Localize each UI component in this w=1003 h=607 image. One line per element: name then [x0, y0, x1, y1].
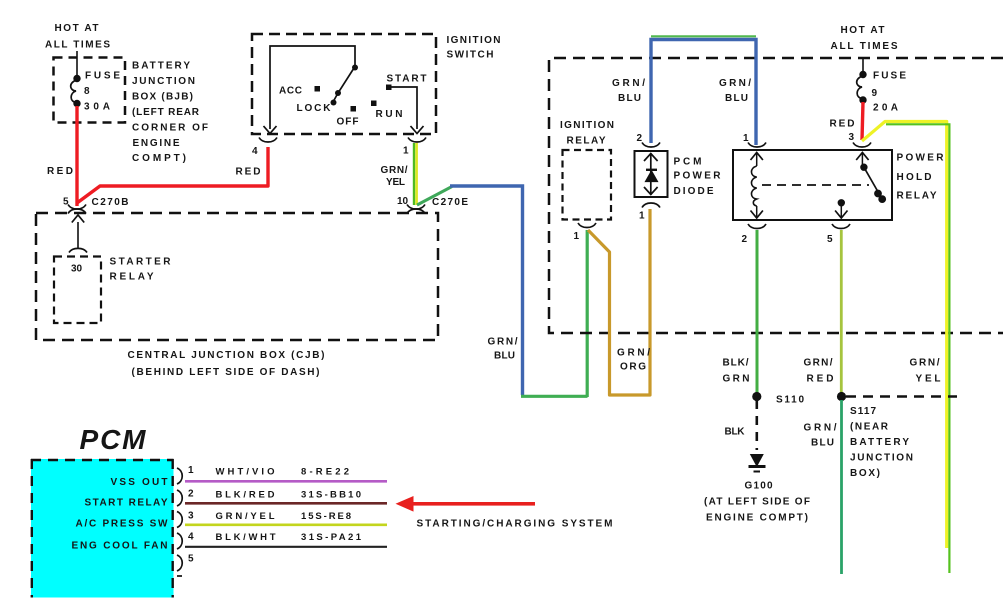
svg-text:DIODE: DIODE [674, 186, 714, 197]
svg-text:VSS OUT: VSS OUT [111, 477, 168, 488]
wire GRN/YEL from relay pin 3 up right and down right edge [862, 122, 947, 549]
label GRN/YEL 15S-RE8 [216, 511, 352, 522]
svg-text:3: 3 [849, 132, 855, 143]
svg-text:HOT AT: HOT AT [841, 25, 885, 36]
connector at ignition relay pin 1 [578, 223, 596, 228]
svg-text:FUSE: FUSE [873, 71, 906, 82]
central junction box (CJB) dashed box [36, 213, 438, 340]
label POWER HOLD RELAY [897, 153, 945, 202]
PCM pin numbers 1-5 [188, 465, 194, 565]
svg-text:BLU: BLU [811, 438, 834, 449]
svg-text:1: 1 [188, 465, 194, 476]
svg-text:STARTING/CHARGING SYSTEM: STARTING/CHARGING SYSTEM [417, 519, 613, 530]
PCM power diode box [635, 151, 668, 197]
svg-text:1: 1 [574, 231, 580, 242]
label FUSE 9 20A [872, 71, 907, 114]
svg-text:ENG COOL FAN: ENG COOL FAN [72, 541, 168, 552]
connector at relay pin 2 [748, 224, 766, 229]
svg-text:RELAY: RELAY [110, 272, 154, 283]
svg-text:ORG: ORG [620, 362, 646, 373]
svg-text:1: 1 [403, 146, 409, 157]
svg-text:CORNER OF: CORNER OF [132, 123, 208, 134]
ignition switch dashed box [252, 34, 436, 134]
label HOT AT ALL TIMES (right) [831, 25, 898, 52]
big dashed box (engine compartment area) [549, 58, 1003, 333]
svg-text:ACC: ACC [279, 86, 302, 97]
dashed link from S117 to GRN/YEL wire [846, 395, 957, 397]
svg-text:OFF: OFF [337, 117, 359, 128]
svg-text:2: 2 [742, 234, 748, 245]
label IGNITION RELAY [560, 120, 614, 147]
svg-text:1: 1 [743, 133, 749, 144]
svg-text:C270B: C270B [92, 197, 129, 208]
label BLK/WHT 31S-PA21 [216, 532, 362, 543]
relay dashed actuation line [762, 184, 869, 186]
svg-text:START RELAY: START RELAY [85, 498, 168, 509]
wire GRN/BLU below S117 [840, 400, 843, 574]
wire RED from C270B to ignition switch pin 4 [77, 147, 268, 203]
wire GRN/YEL from ignition switch pin 1 to C270E [414, 143, 417, 205]
svg-text:8: 8 [84, 86, 90, 97]
svg-text:A/C PRESS SW: A/C PRESS SW [76, 519, 169, 530]
label 10 C270E [397, 196, 468, 208]
svg-text:S110: S110 [776, 395, 804, 406]
svg-text:RELAY: RELAY [567, 136, 606, 147]
red arrow (STARTING/CHARGING SYSTEM) [396, 496, 536, 512]
svg-text:ENGINE COMPT): ENGINE COMPT) [706, 513, 808, 524]
svg-text:BLK: BLK [725, 427, 746, 438]
svg-text:4: 4 [252, 146, 258, 157]
relay coil (pin 1 to pin 2) [751, 152, 763, 218]
wire GRN/BLU from C270E to ignition relay pin 1 [417, 187, 452, 206]
svg-text:10: 10 [397, 196, 409, 207]
svg-text:3: 3 [188, 511, 194, 522]
label CENTRAL JUNCTION BOX (CJB) (BEHIND LEFT SIDE OF DASH) [128, 350, 325, 378]
svg-text:30A: 30A [84, 102, 110, 113]
svg-text:YEL: YEL [386, 177, 405, 188]
wire from C270B down to starter relay [69, 215, 87, 253]
PCM pin function labels [72, 477, 169, 552]
svg-text:LOCK: LOCK [297, 103, 332, 114]
ground G100 [749, 454, 766, 472]
svg-text:PCM: PCM [80, 424, 147, 455]
label PCM POWER DIODE [674, 157, 722, 198]
wire RED from fuse 9 to power hold relay pin 3 [862, 102, 863, 140]
label GRN/RED [804, 358, 834, 385]
splice S110 [752, 392, 761, 401]
arrow into pin 4 [264, 126, 277, 134]
svg-text:START: START [387, 74, 427, 85]
svg-text:BLU: BLU [494, 351, 515, 362]
svg-text:RED: RED [807, 374, 834, 385]
connector at diode pin 2 [642, 143, 660, 148]
svg-text:S117: S117 [850, 406, 876, 417]
label BLK/GRN [723, 358, 750, 385]
svg-text:RED: RED [47, 166, 73, 177]
labels ACC LOCK OFF RUN START [279, 74, 427, 128]
connector at diode pin 1 [642, 203, 660, 208]
arrow into pin 1 [411, 126, 424, 134]
label RED 3 [830, 119, 855, 144]
svg-text:4: 4 [188, 532, 194, 543]
label 1 GRN/YEL (pin 1) [381, 146, 410, 189]
label GRN/BLU (below S117) [804, 423, 837, 449]
svg-text:2: 2 [637, 133, 643, 144]
svg-text:HOT AT: HOT AT [55, 23, 99, 34]
svg-text:5: 5 [827, 234, 833, 245]
svg-text:31S-PA21: 31S-PA21 [301, 532, 362, 543]
svg-text:RUN: RUN [376, 109, 403, 120]
svg-text:(NEAR: (NEAR [850, 422, 889, 433]
connector at relay pin 3 [853, 143, 871, 148]
connector at relay pin 1 [748, 143, 766, 148]
diode symbol and arrows inside [644, 153, 658, 195]
wire GRN/YEL pin 3 [185, 523, 387, 526]
svg-text:JUNCTION: JUNCTION [850, 453, 913, 464]
wire BLK/WHT pin 4 [185, 546, 387, 548]
wire BLK/RED pin 2 [185, 502, 387, 505]
PCM module cyan box [31, 459, 174, 598]
svg-text:G100: G100 [745, 481, 773, 492]
svg-text:RELAY: RELAY [897, 191, 937, 202]
svg-text:ALL TIMES: ALL TIMES [45, 40, 110, 51]
ignition relay dashed box [563, 150, 612, 220]
battery junction box (BJB) dashed box [54, 58, 126, 123]
connector at ignition switch pin 1 [408, 138, 426, 143]
wire BLK dashed from S110 to ground [755, 400, 758, 450]
label GRN/BLU (left of blue wire) [488, 337, 518, 362]
svg-text:BLU: BLU [725, 93, 748, 104]
PCM connector arcs [177, 468, 182, 576]
svg-text:(BEHIND LEFT SIDE OF DASH): (BEHIND LEFT SIDE OF DASH) [132, 367, 320, 378]
svg-text:30: 30 [71, 264, 83, 275]
label GRN/BLU (above diode) [612, 78, 645, 104]
label GRN/YEL (bottom right) [910, 358, 941, 385]
svg-text:2: 2 [188, 489, 194, 500]
starter relay dashed box [54, 257, 101, 324]
label FUSE 8 30A [84, 71, 120, 113]
wire GRN/ORG from ignition relay pin 1 to PCM power diode pin 1 [588, 209, 650, 395]
switch contact dots [315, 65, 392, 112]
label 4 RED (ignition switch pin) [236, 146, 261, 178]
svg-text:JUNCTION: JUNCTION [132, 76, 195, 87]
svg-text:GRN/: GRN/ [804, 358, 833, 369]
ignition switch internal circuit [270, 46, 417, 129]
wire GRN/RED from relay pin 5 to splice S117 [840, 230, 843, 393]
svg-text:PCM: PCM [674, 157, 702, 168]
svg-text:IGNITION: IGNITION [447, 35, 501, 46]
connector C270B [68, 205, 86, 214]
connector C270E [407, 205, 425, 214]
svg-text:20A: 20A [873, 103, 898, 114]
connector at ignition switch pin 4 [259, 138, 277, 143]
svg-text:BOX (BJB): BOX (BJB) [132, 92, 193, 103]
svg-text:GRN/: GRN/ [381, 165, 408, 176]
label S117 (NEAR BATTERY JUNCTION BOX) [850, 406, 913, 479]
svg-text:BLU: BLU [618, 93, 641, 104]
svg-text:GRN: GRN [723, 374, 750, 385]
power hold relay box [733, 150, 892, 220]
label IGNITION SWITCH [447, 35, 501, 61]
label STARTER RELAY [110, 257, 172, 283]
label GRN/ORG [617, 348, 650, 373]
splice S117 [837, 392, 846, 401]
svg-text:BLK/: BLK/ [723, 358, 749, 369]
svg-text:BLK/WHT: BLK/WHT [216, 532, 276, 543]
label G100 (AT LEFT SIDE OF ENGINE COMPT) [704, 481, 810, 524]
label WHT/VIO 8-RE22 [216, 467, 350, 478]
svg-text:(LEFT REAR: (LEFT REAR [132, 107, 200, 118]
svg-text:5: 5 [188, 554, 194, 565]
svg-text:31S-BB10: 31S-BB10 [301, 490, 361, 501]
relay switch (pin 3 to pin 5) [835, 152, 886, 218]
svg-text:IGNITION: IGNITION [560, 120, 614, 131]
svg-text:1: 1 [639, 211, 645, 222]
wire BLK/GRN from relay pin 2 to splice S110 [756, 230, 759, 393]
svg-text:C270E: C270E [432, 197, 468, 208]
fuse F8 [71, 51, 81, 107]
svg-text:ALL TIMES: ALL TIMES [831, 41, 898, 52]
svg-text:RED: RED [830, 119, 855, 130]
wire GRN/BLU top U (diode pin 2 to power hold relay pin 1) [651, 35, 756, 37]
label 5 C270B [63, 197, 129, 209]
svg-text:9: 9 [872, 88, 878, 99]
wire WHT/VIO pin 1 [185, 480, 387, 483]
svg-text:5: 5 [63, 197, 69, 208]
wire RED from fuse 8 down to C270B [75, 106, 78, 206]
connector at relay pin 5 [832, 224, 850, 229]
label BATTERY JUNCTION BOX (BJB) (LEFT REAR CORNER OF ENGINE COMPT) [132, 61, 208, 165]
fuse F9 [857, 58, 867, 103]
label HOT AT ALL TIMES (left) [45, 23, 110, 51]
svg-text:RED: RED [236, 167, 261, 178]
svg-text:YEL: YEL [916, 374, 941, 385]
label BLK/RED 31S-BB10 [216, 490, 362, 501]
svg-text:15S-RE8: 15S-RE8 [301, 511, 351, 522]
label GRN/BLU (above power hold relay) [719, 78, 751, 104]
